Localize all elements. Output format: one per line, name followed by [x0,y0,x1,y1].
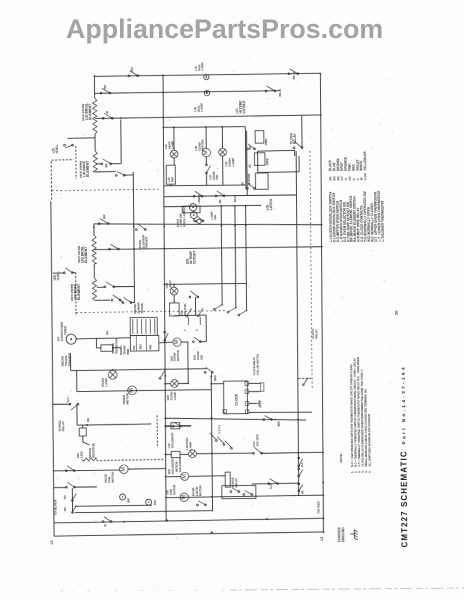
switch U/D conv sw [192,337,201,342]
selector switch arrows lower [210,433,217,442]
svg-text:RELAY: RELAY [293,133,297,144]
switch y421 [263,415,272,420]
relay contact box bottom [222,485,256,498]
wire bus y226 upper-oven feed [94,222,322,227]
switch top bus [128,71,139,77]
lamp oven lamp C [197,219,201,223]
svg-text:W2: W2 [63,507,67,511]
svg-text:M: M [121,467,127,472]
wire selector vertical x236 [234,206,237,308]
svg-text:20: 20 [394,310,399,315]
resistor U/D broil element [92,235,96,264]
lamp oven lamp A [189,204,196,211]
switch main line contact [164,331,168,341]
svg-text:FINGER: FINGER [144,236,148,248]
svg-text:BK-R: BK-R [292,71,296,79]
svg-text:ELEMENT: ELEMENT [77,283,81,300]
switch bus y92 left [100,88,111,94]
svg-text:IND: IND [170,176,174,182]
svg-text:RELAY: RELAY [61,421,65,431]
svg-text:15A 125V: 15A 125V [255,434,259,446]
svg-text:ALL SWITCHES SHOWN IN OFF POSI: ALL SWITCHES SHOWN IN OFF POSITION [367,414,372,467]
svg-text:L1: L1 [50,540,54,544]
wire heat lamp drop [173,127,175,150]
wire y454 right [260,451,322,454]
svg-text:MOTOR: MOTOR [201,139,205,151]
svg-text:BK: BK [301,490,304,494]
switch bake y163 [101,159,112,165]
resistor L/D bake element [93,151,97,172]
svg-text:BRN: BRN [214,375,217,381]
svg-text:LAMP: LAMP [104,378,108,387]
svg-text:BK: BK [105,330,109,335]
lamp L/D dial lamp 2 [204,91,209,96]
svg-text:L2: L2 [320,537,324,541]
switch chain bottom [115,171,125,176]
svg-text:MOTOR: MOTOR [198,486,202,496]
switch door latch [197,501,207,506]
svg-text:M: M [182,474,188,478]
svg-text:PRI: PRI [148,345,152,350]
wire left border L1 bus [51,201,54,536]
lamp bottom circle 1 [120,494,126,500]
wire U/D y248 branch [94,248,109,250]
switch oven lamp [195,216,204,222]
wire locked lamp link [196,452,253,455]
svg-text:Part No.14-37-164: Part No.14-37-164 [400,365,407,444]
wire y196 west [164,195,247,196]
svg-text:N.O.: N.O. [269,483,273,489]
switch bake select b [215,191,225,197]
wire dashed partition x311 [310,151,312,390]
wire timer section frame [76,370,78,391]
svg-text:(BRN): (BRN) [266,158,269,165]
wire U/D conv motor row [159,341,173,343]
svg-text:LAMP: LAMP [200,62,204,71]
inductor box U/D ind coil [170,303,180,316]
junction bottom bus c [211,531,213,533]
clock box [224,381,248,414]
svg-text:240V 3410W: 240V 3410W [77,246,81,263]
wire dashed drop x75.9 [75,273,77,316]
wire U/D conv lamp row [165,383,170,385]
motor blower motor [181,472,189,480]
wire bottom-left chain vertical [71,488,73,512]
resistor U/D bake element [92,278,96,300]
wire U/D broil drop [93,224,95,235]
switch U/D y248 [109,244,120,250]
wire clock coil loop [249,382,261,384]
svg-text:BK: BK [86,417,90,422]
svg-text:BR: BR [130,66,134,71]
lamp L/D heat lamp [170,150,178,158]
svg-text:SW: SW [215,175,219,180]
junction bottom bus b [266,518,268,520]
wire vertical main x165 [162,75,167,521]
wire bottom bus y497 [166,495,323,498]
junction dots right border [319,73,321,75]
svg-text:MOTOR: MOTOR [110,471,114,483]
switch bake select a [193,191,203,197]
wire clock terminal4 y413 [249,411,312,414]
watermark AppliancePartsPros.com [66,14,383,45]
wire dashed partition y189 [52,189,161,191]
svg-text:NOTE:: NOTE: [339,453,343,462]
svg-text:BK: BK [249,146,252,150]
wire surge resistor leads [96,347,100,349]
svg-text:W: W [105,111,109,114]
wire y173 latch [258,171,299,174]
lamp locked lamp [189,450,197,458]
relay box latch 3 [255,173,268,189]
svg-text:BR: BR [104,163,108,167]
solenoid box U/D solenoid [171,451,180,457]
switch x297 chain a [298,457,303,467]
switch latch a [247,144,256,150]
lamp U/D conv lamp [170,380,178,388]
switch surge relay [69,403,79,410]
svg-text:FIL: FIL [132,345,136,349]
wire between elements [94,134,96,151]
wire y197 latch [247,194,296,196]
wire solenoid2 link [165,453,171,455]
svg-text:GROUND: GROUND [341,527,345,542]
svg-text:ELEMENT: ELEMENT [88,103,92,120]
lamp oven lamp B [190,212,197,219]
wire conv motor drop [205,127,207,148]
svg-text:240V 2585W: 240V 2585W [70,284,74,301]
resistor L/D broil element [93,98,98,134]
switch top bus right [288,69,299,75]
svg-text:3.: 3. [357,470,361,473]
lamp L/D dial lamp 1 [204,74,209,79]
wire selector vertical x222 [220,206,223,305]
wire y484 link [252,482,299,485]
wire bake branch [96,163,102,165]
inductor box L/D ind coil [166,165,175,184]
wire bus y206 [164,205,261,206]
wire oven lamp drop [112,369,114,372]
svg-text:LAMP: LAMP [188,442,192,450]
transformer secondary box [130,335,159,351]
svg-text:BR: BR [102,214,106,219]
oven lamp box [182,206,200,213]
svg-text:LOWER THERMOSTAT: LOWER THERMOSTAT [380,200,384,234]
switch U/D y286 [104,282,115,288]
wire clock relay stub [301,116,303,148]
switch n.o. latch [253,447,263,454]
relay box surge relay 2 [225,472,230,487]
svg-text:LATCH: LATCH [269,198,273,210]
wire U/D chain bottom y299 [95,299,110,301]
wire between U/D elements [93,264,95,278]
switch U/D bottom a [111,295,121,301]
wire U/D heat lamp drops [173,284,175,287]
svg-text:CLOCK: CLOCK [234,393,238,406]
svg-text:COIL (50 WATTS): COIL (50 WATTS) [256,354,260,375]
svg-text:SEC: SEC [138,344,142,350]
wire clock stub y426 [165,425,191,427]
junction x297 y485 [298,482,300,484]
svg-text:LAMP: LAMP [171,141,175,149]
svg-text:N.O.: N.O. [301,462,304,467]
wire U/D H.W.L. stub [53,272,65,274]
wire clock feed y369 switch [204,367,213,373]
switch bottom left 2 [72,506,77,514]
wire dashed box clock bottom [298,377,311,379]
switch near dashed box [303,378,309,386]
wire selector vertical x246.5 [246,206,247,311]
switch U/D bus y226 [98,219,109,225]
wire clock feed drop [211,376,212,511]
switch bottom left 1 [71,494,76,502]
lamp bottom circle 2 [146,499,152,505]
svg-text:1.: 1. [350,470,354,473]
svg-text:RELAY: RELAY [314,329,318,339]
svg-text:M: M [181,495,187,500]
switch x297 chain b [298,468,303,477]
wire ind coil drop [173,158,175,165]
svg-text:6.: 6. [368,470,372,473]
wire bus y248 right [110,247,322,250]
svg-text:SW: SW [199,355,203,360]
svg-text:W1: W1 [63,495,67,499]
svg-text:5.: 5. [364,470,368,473]
wire dial lamp drop [205,74,207,76]
svg-text:RESISTOR: RESISTOR [114,338,118,354]
wire latch cluster vertical x259 [257,151,259,173]
switch x297 chain c [298,483,303,492]
wire bottom border y534 [54,532,323,536]
wire left sw2 stub [54,486,67,488]
svg-text:LAMP: LAMP [200,103,204,112]
relay box latch 1 [255,131,264,144]
motor U/D conv motor [173,338,181,346]
wire bus y369 [71,369,207,371]
switch latch b [246,183,255,189]
wire right border L2 bus [319,73,325,533]
wire surge coil link [82,425,84,428]
switch contact y315 a [186,308,192,325]
svg-text:BK-O: BK-O [278,88,282,96]
svg-text:I-BAKE: I-BAKE [198,194,201,203]
svg-text:4.: 4. [361,470,365,473]
switch bake element finger [135,223,146,230]
clock terminal 1 [245,382,249,386]
svg-text:CUTOUT: CUTOUT [193,251,197,264]
svg-text:N.C.: N.C. [66,396,70,402]
switch main line y375 [159,370,165,379]
svg-text:240V 3400W: 240V 3400W [81,104,85,121]
switch y426 bump [172,422,181,427]
clock terminal left [223,409,227,413]
svg-text:BR: BR [219,199,222,203]
wire clock left link [210,383,223,385]
junction bottom bus a [165,519,167,521]
switch y484 [268,479,279,485]
wire dashed y459 [97,459,164,460]
wire surge relay drop [76,404,78,425]
clock terminal 2 [245,390,249,394]
svg-text:LAMP: LAMP [231,158,235,167]
inductor clock relay coil [261,383,264,392]
switch in box b [243,490,253,495]
svg-text:H.W.L.: H.W.L. [56,270,60,280]
wire conv right x247 [244,127,247,190]
svg-text:M: M [174,339,180,344]
wire conv lamp drop [221,127,223,148]
clock terminal 3 [245,402,249,406]
motor L/D conv motor [202,148,210,156]
scan speckle [38,56,398,561]
wire bottom bus y521 [54,518,324,523]
wire solenoid link [165,425,171,427]
wire latch to clock relay [258,149,295,152]
svg-text:752 RED: 752 RED [316,500,320,513]
svg-text:Y-GR: Y-GR [363,172,367,180]
svg-text:2.: 2. [354,470,358,473]
ground chassis ground symbol [350,530,358,540]
switch left sw1 [65,466,75,472]
svg-text:MOTOR: MOTOR [176,349,180,361]
svg-text:TRANS: TRANS [140,303,144,313]
junction dots [94,75,96,77]
svg-text:BP: BP [103,85,107,89]
svg-text:CMT227 SCHEMATIC: CMT227 SCHEMATIC [399,450,409,547]
wire oven lamp stub [193,218,195,221]
wire hood fan bus y469 [53,469,119,472]
svg-text:SOLENOID: SOLENOID [170,432,174,448]
svg-text:RELAY: RELAY [234,478,238,488]
motor timer motor [128,386,137,395]
switch left sw2 [65,482,75,488]
svg-text:-BR6: -BR6 [278,421,281,427]
wire surge junction y424 [77,424,151,425]
wire bus y117 [95,115,321,119]
clock terminal 4 [245,410,249,414]
wire H.W.L. stub [67,137,95,140]
wire bus y390 [77,390,211,392]
wire y511 stub [75,511,213,513]
relay box latch 2 [254,153,265,166]
svg-text:H.W.L.: H.W.L. [55,143,59,153]
svg-text:ELEMENT: ELEMENT [84,246,88,263]
relay coil box surge [79,428,86,436]
svg-text:YELLOW-GR: YELLOW-GR [363,151,367,171]
wire latch cluster vertical x248 [246,131,249,196]
svg-text:IND COIL: IND COIL [183,303,187,316]
wire blower link [166,476,181,478]
wire vertical x205.9 [205,315,207,342]
svg-text:MOTOR: MOTOR [175,461,179,473]
svg-text:LAMP: LAMP [173,392,177,400]
svg-text:ELEMENT: ELEMENT [86,160,90,177]
wire y315 coil to corner [174,314,206,317]
svg-text:2: 2 [184,329,187,331]
switch bus y117 [102,113,113,119]
svg-text:SW: SW [213,215,217,220]
wire bus y92 [95,91,280,94]
wire clock bottom y421 [165,417,306,422]
svg-text:TIMER: TIMER [63,325,67,335]
svg-text:FMR: FMR [126,349,130,355]
switch in box a [230,488,240,493]
wire y504 stub [75,505,152,506]
wire top bus y75 [94,73,320,76]
wire conv bottom y185 [164,184,246,187]
svg-text:240V 2585W: 240V 2585W [79,161,83,178]
wire x300 stub [298,156,300,172]
wire dashed partition y311 [76,311,225,313]
motor hood fan motor [119,465,128,474]
svg-text:M: M [129,388,135,393]
wire element chain bottom [95,171,115,173]
wire U/D conv sw to vert [200,341,206,343]
switch L/D conv sw [205,164,210,174]
svg-text:MICROSW: MICROSW [248,173,251,186]
switch contact y315 b [197,308,203,325]
svg-text:MOTOR: MOTOR [172,485,176,495]
svg-text:L.TH: L.TH [381,234,385,242]
svg-text:W: W [103,524,107,527]
wire selector vertical x134.5 [133,172,134,300]
scan noise streak [60,590,230,591]
wire L/D element drop x96.5 [93,76,95,98]
lamp L/D conv lamp [219,148,227,156]
switch clock relay contact [293,142,303,149]
wire U/D y286 branch [97,286,105,288]
wire U/D conv top y284 [165,283,246,284]
wire x196 drop [194,297,196,316]
lamp oven lamp main [108,370,117,379]
wire conv sw drop [205,157,207,165]
switch y521 [102,517,112,523]
switch U/D bottom b [122,298,132,304]
svg-text:BAT: BAT [127,497,130,502]
svg-text:OVEN LAMP(2): OVEN LAMP(2) [182,206,186,227]
wire vertical x187.4 [187,342,189,383]
motor door latch motor [180,493,188,501]
svg-text:2: 2 [196,329,199,331]
resistor surge resistor box [101,345,113,352]
lamp U/D heat lamp [170,287,178,295]
wire vertical main x297 [295,151,299,495]
svg-text:(PNK): (PNK) [265,138,268,145]
ground clock ground [249,402,257,404]
svg-text:RESISTOR: RESISTOR [91,442,95,458]
svg-text:125V: 125V [79,451,83,458]
wire chain to x134 [124,174,133,176]
svg-text:BA.S: BA.S [234,196,237,202]
timer kitchen timer dial [66,334,76,344]
wire U/D bottom join [120,300,123,303]
wire timer to transformer [76,338,130,339]
svg-text:NC: NC [249,164,252,168]
svg-text:CUTOUT: CUTOUT [242,100,246,113]
switch U/D heat [189,291,199,298]
switch bus y92 right [265,86,276,92]
switch L/D H.W.L. [64,144,74,148]
switch U/D H.W.L. [63,268,73,274]
wire y369 riser [70,353,72,370]
svg-text:1 2 3 4: 1 2 3 4 [217,425,221,434]
svg-text:TO BLACK: TO BLACK [53,499,57,516]
solenoid box L/D solenoid [171,423,180,429]
wire dashed x156 [156,415,158,446]
wire conv top y127 [164,126,246,129]
resistor surge resistor 2 [82,458,97,461]
transformer micro power transformer [130,317,157,335]
